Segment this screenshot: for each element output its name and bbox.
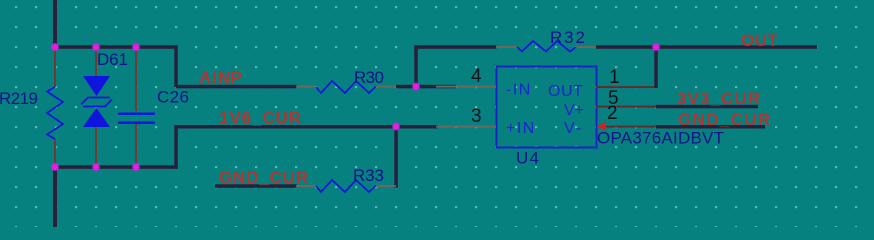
junction dot at (656,47) <box>652 43 659 50</box>
op-amp U4 pin 3 line <box>436 126 496 128</box>
svg-text:R219: R219 <box>0 89 38 108</box>
op-amp U4 body rectangle <box>497 67 597 148</box>
wire: OUT net y=47 from junction to x=817 <box>654 45 817 49</box>
svg-text:OPA376AIDBVT: OPA376AIDBVT <box>597 129 724 148</box>
resistor R219 zigzag body <box>47 87 63 139</box>
diode D61 Z-bar lower <box>83 100 112 107</box>
svg-text:GND_CUR: GND_CUR <box>219 168 308 187</box>
op-amp U4 pin 2 line <box>606 126 656 128</box>
wire: AINP net y=86.5 from corner x=176 to R30 <box>176 85 297 89</box>
svg-text:R33: R33 <box>353 166 384 185</box>
svg-text:GND_CUR: GND_CUR <box>678 110 770 129</box>
svg-text:C26: C26 <box>157 88 189 107</box>
wire: left vertical net, bottom segment below rail <box>53 167 57 227</box>
svg-text:D61: D61 <box>97 50 128 69</box>
svg-text:-IN: -IN <box>506 82 532 99</box>
diode D61 lower triangle (TVS, apex up) <box>83 108 110 127</box>
svg-text:U4: U4 <box>516 149 539 168</box>
svg-text:OUT: OUT <box>548 83 583 100</box>
svg-text:AINP: AINP <box>199 68 242 87</box>
op-amp U4 pin 1 line <box>596 86 656 88</box>
capacitor C26 top pin stub <box>135 47 137 111</box>
svg-text:4: 4 <box>471 66 482 87</box>
wire: 3V3_CUR net y=106.5 <box>656 105 758 109</box>
resistor R33 zigzag body <box>316 180 376 192</box>
svg-text:3V3_CUR: 3V3_CUR <box>677 89 760 108</box>
wire: GND_CUR right net y=126.5 <box>656 125 765 129</box>
wire: vertical x=396 from y=126.5 down to y=186 <box>394 125 398 188</box>
wire: feedback top y=47 from x=416 to R32 <box>414 45 496 49</box>
junction dot at (396,126.5) <box>392 123 399 130</box>
svg-text:R32: R32 <box>550 28 585 47</box>
resistor R30 right pin <box>376 86 396 88</box>
resistor R30 left pin <box>296 86 316 88</box>
svg-text:1V6_CUR: 1V6_CUR <box>219 109 301 128</box>
resistor R30 zigzag body <box>316 81 376 93</box>
capacitor C26 top plate <box>118 113 155 115</box>
resistor R32 left pin <box>496 46 517 48</box>
resistor R32 zigzag body <box>517 41 576 52</box>
wire: 1V6_CUR net y=126.5 from corner x=176 to junction <box>176 125 398 129</box>
svg-text:3: 3 <box>471 106 482 127</box>
wire: left vertical net, top segment <box>53 0 57 47</box>
svg-text:1: 1 <box>609 67 620 88</box>
capacitor C26 bottom pin stub <box>135 124 137 167</box>
diode D61 bottom pin stub <box>95 127 97 167</box>
wire: vertical x=176 from y=47 to y=87 <box>174 45 178 87</box>
junction dot at (136,167) <box>132 163 139 170</box>
wire: bottom rail y=167 from x=56 to x=176 <box>53 165 178 169</box>
junction dot at (56,47) <box>51 43 58 50</box>
svg-text:V-: V- <box>564 120 583 137</box>
junction dot at (416,86.5) <box>412 83 419 90</box>
diode D61 Z-bar upper <box>81 98 110 105</box>
capacitor C26 bottom plate <box>118 122 155 124</box>
wire: vertical x=416 from y=47 to y=86.5 <box>414 45 418 87</box>
wire: OUT net y=47 from R32 right pin to junction <box>596 45 656 49</box>
wire: AINP net from R30 pin to op-amp pin 4 <box>396 85 456 89</box>
resistor R219 pin bottom stub <box>54 139 56 167</box>
junction dot at (136,47) <box>132 43 139 50</box>
wire: vertical x=656 from y=47 down to pin1 y=87 <box>654 45 658 88</box>
svg-text:2: 2 <box>607 103 618 124</box>
resistor R33 right pin <box>376 185 396 187</box>
resistor R32 right pin <box>576 46 596 48</box>
wire: vertical x=176 from y=127 to y=167 <box>174 125 178 169</box>
wire: GND_CUR bottom row y=186 open end to R33 <box>215 184 297 188</box>
junction dot at (96,47) <box>92 43 99 50</box>
resistor R33 left pin <box>296 185 316 187</box>
diode D61 top pin stub <box>95 47 97 76</box>
svg-text:+IN: +IN <box>506 120 536 137</box>
op-amp U4 pin 5 line <box>596 106 656 108</box>
svg-text:OUT: OUT <box>741 31 779 50</box>
svg-text:V+: V+ <box>564 102 584 119</box>
junction dot at (96,167) <box>92 163 99 170</box>
junction dot at (56,167) <box>51 163 58 170</box>
op-amp U4 pin 4 line <box>436 86 496 88</box>
diode D61 upper triangle (TVS, apex down) <box>83 76 110 96</box>
resistor R219 pin top stub <box>54 47 56 87</box>
svg-text:R30: R30 <box>354 68 384 87</box>
wire: top rail y=47 from x=56 to x=176 <box>53 45 178 49</box>
pin 2 red direction arrow <box>597 122 606 132</box>
wire: 1V6 net from junction to op-amp pin 3 <box>396 125 438 129</box>
